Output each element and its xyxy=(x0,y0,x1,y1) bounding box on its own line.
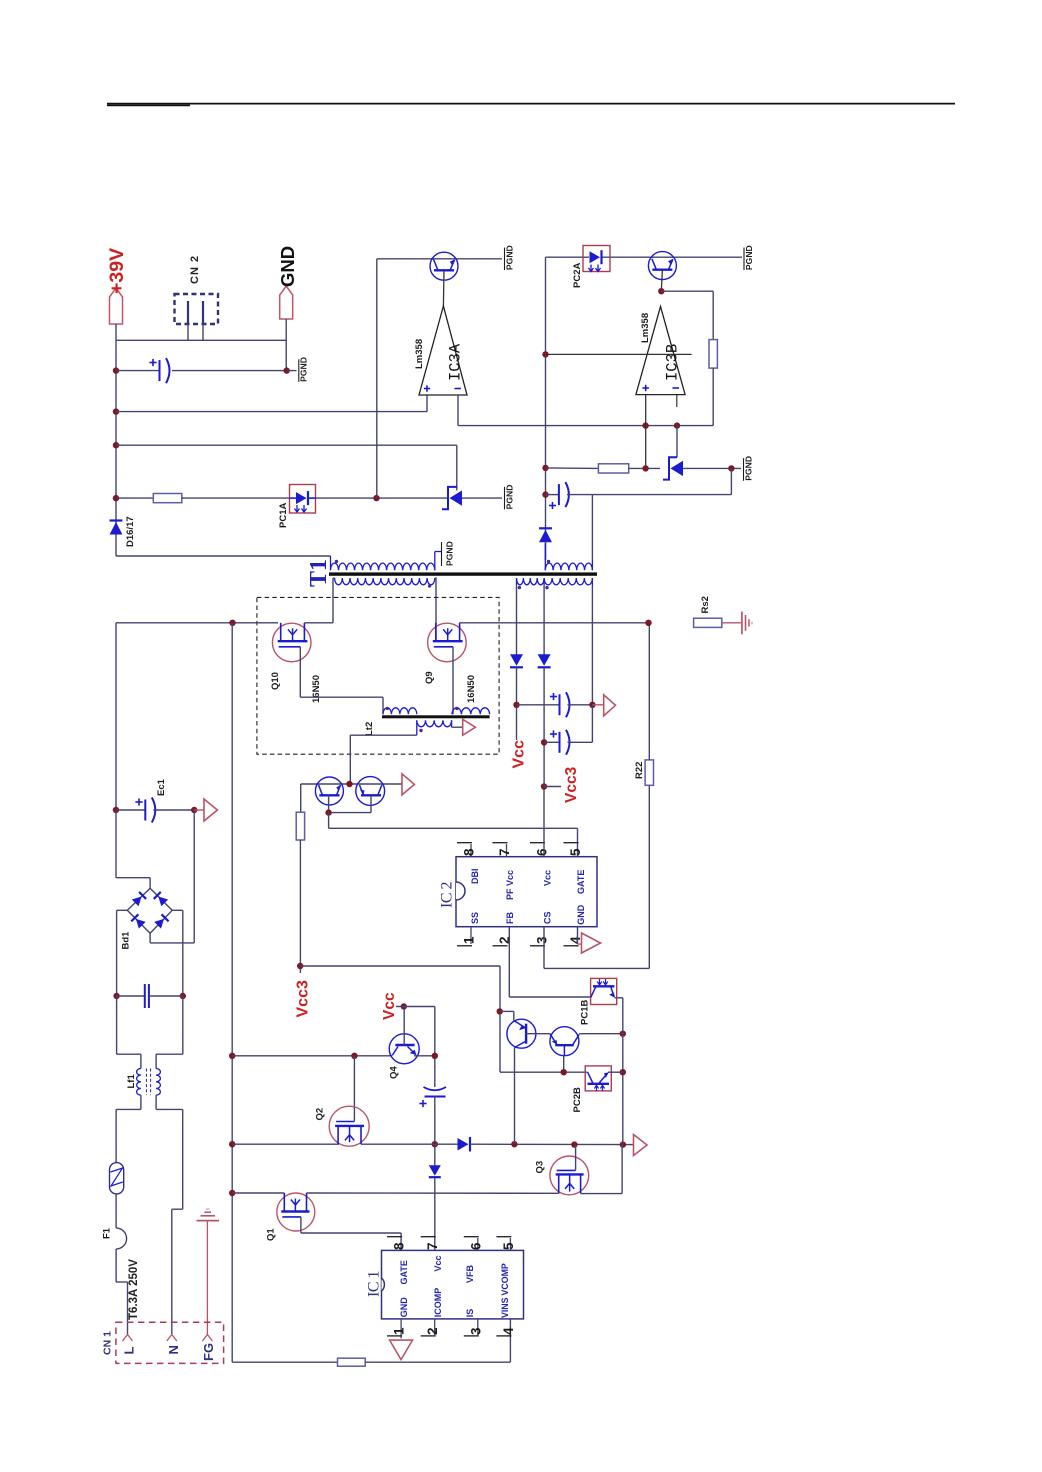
wire F1 lead xyxy=(115,1194,117,1228)
IC1 pin5 VCOMP xyxy=(509,1238,511,1250)
wire to arrow2 xyxy=(194,809,204,811)
connector CN 2 xyxy=(175,294,219,324)
svg-text:PGND: PGND xyxy=(743,456,753,481)
svg-text:GATE: GATE xyxy=(399,1260,409,1284)
ground PGND label3 xyxy=(504,248,506,271)
resistor Rdrv xyxy=(296,812,304,840)
svg-text:VINS: VINS xyxy=(500,1297,510,1318)
T1 primary winding xyxy=(330,556,332,570)
node j-731 xyxy=(728,465,734,471)
node +39V junction3 xyxy=(113,442,119,448)
IC2 pin4 GND xyxy=(564,945,579,947)
T1 aux winding xyxy=(335,578,435,585)
resistor R22 xyxy=(645,760,653,785)
wire latch emitter bus xyxy=(500,1071,564,1073)
IC1 pin3 IS xyxy=(477,1319,479,1335)
wire sec rail2 xyxy=(543,585,545,656)
svg-text:PC1A: PC1A xyxy=(278,503,289,528)
node Vcc3 j xyxy=(541,783,547,789)
transformer T1 core xyxy=(329,572,597,575)
wire IC3B input cross xyxy=(546,353,692,355)
svg-text:Q9: Q9 xyxy=(424,671,435,684)
svg-text:PGND: PGND xyxy=(299,357,309,382)
svg-text:T1: T1 xyxy=(306,559,332,587)
transistor drv-npn xyxy=(315,777,343,805)
wire sec rail3 xyxy=(591,585,593,705)
transistor Q3 xyxy=(550,1156,589,1195)
wire FB pin2 down xyxy=(508,927,510,997)
wire H1 mid xyxy=(361,1143,458,1145)
IC1 pin2 ICOMP xyxy=(434,1319,436,1335)
IC1 pin7 Vcc xyxy=(421,1236,436,1238)
CN1 pin FG xyxy=(202,1335,212,1342)
node H1 j1 xyxy=(432,1141,438,1147)
node r232 j2 xyxy=(229,1141,235,1147)
wire VINS run xyxy=(232,1361,337,1363)
wire rail545 top xyxy=(545,257,547,560)
node T1 dot5 xyxy=(545,586,548,589)
transistor Q4 xyxy=(389,1034,419,1064)
wire Lf1 L down xyxy=(140,1095,142,1109)
svg-text:Vcc: Vcc xyxy=(381,992,398,1020)
svg-text:PGND: PGND xyxy=(504,485,514,510)
wire PC1B right xyxy=(615,997,623,999)
svg-text:GND: GND xyxy=(277,246,298,287)
wire R22 top xyxy=(648,623,650,760)
wire Q10 src to T1 xyxy=(304,622,333,624)
node H1 j3 xyxy=(571,1141,577,1147)
wire to CN1 L xyxy=(115,1249,117,1282)
ground arrow IC2 xyxy=(582,933,601,953)
wire rail376 xyxy=(376,259,378,498)
CN1 pin L xyxy=(123,1335,133,1342)
wire Q2 gate drop xyxy=(353,1056,355,1122)
node j-645-468 xyxy=(642,465,648,471)
wire Ec1 right down xyxy=(193,810,195,943)
inductor Lt2 core xyxy=(382,715,490,718)
optocoupler PC1B xyxy=(591,978,617,1004)
transistor IC3B-out xyxy=(648,252,676,280)
wire IC3B minus stub xyxy=(676,395,678,407)
wire VINS run2 xyxy=(365,1361,510,1363)
wire Rs2 to earth xyxy=(722,622,741,624)
wire Q9 src out xyxy=(460,622,649,624)
wire L2 bot right xyxy=(451,720,453,727)
optocoupler PC2A xyxy=(583,246,610,272)
diode Dsec2 xyxy=(538,666,551,668)
wire zener1 to PGND xyxy=(462,497,502,499)
ground PGND label2 xyxy=(504,487,506,510)
wire Rdrv down xyxy=(299,840,301,973)
svg-text:Lm358: Lm358 xyxy=(640,313,651,343)
svg-text:Vcc: Vcc xyxy=(433,1255,443,1271)
node xcap j1 xyxy=(113,993,119,999)
svg-text:PGND: PGND xyxy=(744,245,754,270)
svg-text:VCOMP: VCOMP xyxy=(500,1263,510,1295)
wire drv bases xyxy=(329,812,371,814)
wire H2 left xyxy=(232,1192,284,1194)
svg-text:Q1: Q1 xyxy=(266,1228,277,1241)
svg-text:6: 6 xyxy=(535,848,550,856)
IC2 pin8 DBI xyxy=(470,844,472,857)
transistor latch-pnp xyxy=(507,1019,536,1048)
diode D16/17 xyxy=(110,519,123,521)
wire rail232 xyxy=(231,623,233,1362)
wire sec rail2b xyxy=(543,667,545,786)
wire zener2 right xyxy=(683,467,741,469)
svg-text:ICOMP: ICOMP xyxy=(433,1288,443,1318)
svg-text:IC3A: IC3A xyxy=(447,343,465,381)
svg-text:GATE: GATE xyxy=(576,870,586,894)
wire CN2 pin1 xyxy=(187,324,189,340)
svg-text:3: 3 xyxy=(535,936,550,944)
svg-text:IC 1: IC 1 xyxy=(366,1271,383,1298)
node R22 j xyxy=(645,620,651,626)
T1 sec winding bottom xyxy=(517,578,545,585)
diode Dser xyxy=(469,1137,471,1152)
inductor Lf1 xyxy=(137,1069,141,1096)
svg-text:CN 1: CN 1 xyxy=(102,1331,114,1355)
wire to arrow1 xyxy=(592,704,603,706)
node rail545 j3 xyxy=(542,491,548,497)
Lt2 bottom winding xyxy=(417,720,452,727)
ground PGND label4 xyxy=(743,248,745,271)
op-amp IC3A xyxy=(419,306,467,395)
wire sec rail1b xyxy=(516,667,518,740)
svg-text:3: 3 xyxy=(468,1327,483,1335)
transistor drv-pnp xyxy=(356,777,385,806)
transistor IC3A-out xyxy=(430,252,458,280)
svg-text:Bd1: Bd1 xyxy=(121,931,132,950)
wire PC1A to zener1 xyxy=(316,497,448,499)
svg-text:F1: F1 xyxy=(102,1227,113,1239)
svg-text:Ec1: Ec1 xyxy=(156,778,167,796)
svg-text:FB: FB xyxy=(505,912,515,924)
wire IC2 gnd lead xyxy=(577,927,579,944)
transistor Q1 xyxy=(277,1193,315,1231)
node T1 dot3 xyxy=(547,560,550,563)
svg-text:Vcc3: Vcc3 xyxy=(563,766,580,803)
capacitor Cvcc1 xyxy=(517,704,560,706)
wire pnp collector xyxy=(514,1048,516,1145)
node H1 j2 xyxy=(511,1141,517,1147)
node +39V junction2 xyxy=(113,408,119,414)
wire R to PC1A xyxy=(182,497,290,499)
svg-text:Q10: Q10 xyxy=(270,672,281,690)
svg-text:16N50: 16N50 xyxy=(466,675,477,703)
IC1 pin4 VINS xyxy=(496,1335,511,1337)
ground arrow H1 xyxy=(634,1135,648,1156)
svg-text:Rs2: Rs2 xyxy=(700,596,711,613)
wire H2 right xyxy=(307,1192,559,1194)
node PGND junction xyxy=(284,367,290,373)
capacitor Ec1 xyxy=(116,809,145,811)
ground PGND label1 xyxy=(287,370,297,372)
wire IC3A- to bus xyxy=(457,395,459,426)
svg-text:PF Vcc: PF Vcc xyxy=(505,870,515,900)
diode Dvcc dn xyxy=(434,1144,436,1166)
node r232 j3 xyxy=(229,1190,235,1196)
svg-text:7: 7 xyxy=(497,848,512,856)
diode D-aux xyxy=(539,527,552,529)
wire Q10 gate to L2 xyxy=(300,696,383,698)
op-amp IC3B xyxy=(636,306,685,394)
svg-text:CN 2: CN 2 xyxy=(189,255,201,284)
node Vcc j1 xyxy=(513,702,519,708)
svg-text:+39V: +39V xyxy=(106,248,128,294)
node rail545 j-in xyxy=(542,351,548,357)
svg-text:8: 8 xyxy=(392,1242,407,1250)
transistor latch-npn xyxy=(550,1027,579,1056)
svg-text:Vcc: Vcc xyxy=(543,870,553,886)
ground arrow drv xyxy=(402,774,414,795)
IC2 pin5 GATE xyxy=(564,842,579,844)
wire R2 to zener2 xyxy=(629,467,660,469)
capacitor aux C1 xyxy=(546,494,559,496)
ground arrow IC1 xyxy=(390,1340,413,1360)
wire xcap to Lf1 R xyxy=(182,996,184,1054)
ground PGND label T1 xyxy=(441,542,443,566)
wire xcap to Lf1 L xyxy=(116,996,118,1054)
optocoupler PC1A xyxy=(290,485,316,514)
fuse F1 arc xyxy=(116,1228,127,1249)
node rail376 junction xyxy=(373,495,379,501)
connector CN1 box xyxy=(116,1322,224,1363)
wire to zener1 xyxy=(116,444,457,446)
node T1 dot1 xyxy=(335,560,338,563)
wire Bd1 bottom xyxy=(149,933,151,943)
svg-text:PC2B: PC2B xyxy=(572,1087,583,1112)
svg-text:IS: IS xyxy=(465,1309,475,1318)
capacitor Cvcc q4 xyxy=(424,1087,447,1090)
svg-text:PGND: PGND xyxy=(504,245,514,270)
wire diode-winding xyxy=(545,542,547,561)
node L2 dot1 xyxy=(386,707,389,710)
wire Q4 emitter xyxy=(414,1055,435,1057)
IC2 pin1 SS xyxy=(470,927,472,944)
wire Vcc to IC1 xyxy=(434,1178,436,1250)
IC IC2 body xyxy=(456,857,597,927)
node T1 dot2 xyxy=(428,584,431,587)
svg-text:7: 7 xyxy=(425,1242,440,1250)
IC2 pin6 Vcc xyxy=(530,842,545,844)
IC IC1 body xyxy=(382,1250,524,1319)
Lt2 top windings xyxy=(383,708,417,715)
IC1 pin8 GATE xyxy=(387,1236,402,1238)
ground earth sec xyxy=(741,612,743,635)
boundary dashed box xyxy=(257,597,499,754)
wire aux right to Q9 xyxy=(435,577,437,641)
node Ec1 j1 xyxy=(113,807,119,813)
power flag +39V xyxy=(110,288,123,324)
node +39V junction1 xyxy=(113,367,119,373)
wire cap2 up xyxy=(591,705,593,743)
svg-text:D16/17: D16/17 xyxy=(125,516,136,547)
wire +39V to CN2 to GND xyxy=(116,339,286,341)
wire op1 collector line xyxy=(377,258,502,260)
wire bulk to Q10 xyxy=(116,622,278,624)
capacitor X-cap xyxy=(117,995,145,997)
node minus-bus j2 xyxy=(674,422,680,428)
IC1 pin6 VFB xyxy=(477,1238,479,1250)
svg-text:2: 2 xyxy=(425,1327,440,1335)
wire 731 loop xyxy=(730,468,732,494)
node L2 dot2 xyxy=(455,707,458,710)
wire Vcc label lead xyxy=(396,1006,404,1008)
wire H1 right xyxy=(470,1143,633,1145)
CN1 pin N xyxy=(167,1335,177,1342)
svg-text:1: 1 xyxy=(462,936,477,944)
transistor Q2 xyxy=(329,1106,369,1146)
wire pnp emitter xyxy=(500,1010,514,1012)
resistor R(467) xyxy=(598,464,628,473)
wire Bd1 left xyxy=(117,909,128,911)
svg-text:5: 5 xyxy=(501,1242,516,1250)
capacitor output C xyxy=(116,370,160,372)
node r232 j1 xyxy=(229,1053,235,1059)
node rail545 j2 xyxy=(542,465,548,471)
resistor Rs2 xyxy=(694,618,722,627)
node IC3B out xyxy=(658,288,664,294)
wire drv collector xyxy=(300,784,302,812)
wire Q3 loop xyxy=(581,1193,623,1195)
header rule xyxy=(107,103,955,105)
IC2 pin7 PFVcc xyxy=(506,844,508,857)
zener ZD1 xyxy=(442,487,457,509)
wire sec rail1 xyxy=(516,585,518,656)
node cap1 j xyxy=(589,702,595,708)
wire IC3B feedback xyxy=(661,290,713,292)
svg-text:Vcc3: Vcc3 xyxy=(295,980,312,1017)
svg-text:GND: GND xyxy=(576,904,586,925)
resistor Rfb xyxy=(709,340,717,369)
svg-text:16N50: 16N50 xyxy=(311,675,322,703)
zener ZD2 xyxy=(663,457,677,479)
diode Dsec1 xyxy=(510,666,523,668)
node Vcc rail j xyxy=(432,1053,438,1059)
node rail232 top xyxy=(229,620,235,626)
wire Lf1 R down xyxy=(155,1095,157,1109)
svg-text:GND: GND xyxy=(399,1297,409,1318)
wire 677 to zener2 xyxy=(676,426,678,458)
wire npn collector xyxy=(579,1033,623,1035)
node Vcc q4 j xyxy=(401,1003,407,1009)
wire +39V rail upper xyxy=(115,324,117,556)
svg-text:R22: R22 xyxy=(634,762,645,779)
wire Vcc3 rail xyxy=(543,787,545,857)
resistor Rvins xyxy=(338,1358,366,1366)
svg-text:5: 5 xyxy=(568,848,583,856)
svg-text:PC2A: PC2A xyxy=(572,263,583,288)
wire CS pin3 down xyxy=(543,927,545,969)
svg-text:FG: FG xyxy=(201,1343,216,1361)
svg-text:8: 8 xyxy=(462,848,477,856)
ground arrow L2 xyxy=(463,719,476,735)
node H1 j4 xyxy=(620,1141,626,1147)
node pnp j xyxy=(497,1008,503,1014)
wire CS up R22 xyxy=(648,785,650,968)
wire Rfb down xyxy=(712,368,714,426)
wire rail to R xyxy=(116,497,153,499)
node drv base j xyxy=(325,809,331,815)
wire gate bus xyxy=(328,813,330,829)
IC2 pin2 FB xyxy=(493,945,508,947)
node Vcc3 j2 xyxy=(541,739,547,745)
resistor R(39V) xyxy=(153,494,182,503)
transistor Q9 xyxy=(428,623,467,662)
node latch j2 xyxy=(561,1069,567,1075)
svg-text:Lm358: Lm358 xyxy=(414,339,425,369)
svg-text:Lt2: Lt2 xyxy=(364,722,375,736)
svg-text:CS: CS xyxy=(543,911,553,924)
ground arrow Ec1 xyxy=(204,799,217,821)
svg-text:PC1B: PC1B xyxy=(580,1000,591,1025)
node L2 dot3 xyxy=(419,729,422,732)
svg-text:IC3B: IC3B xyxy=(664,344,682,381)
T1 sec winding top xyxy=(545,563,592,570)
wire CN2 pin2 xyxy=(202,324,204,340)
node minus-bus j1 xyxy=(642,422,648,428)
transistor Q10 xyxy=(272,623,311,662)
wire L2 bot left xyxy=(416,720,418,735)
wire GND lead xyxy=(285,319,287,371)
svg-text:Vcc: Vcc xyxy=(511,740,528,769)
wire IC3B plus pin xyxy=(645,395,647,469)
wire Ec1 left down xyxy=(115,810,117,878)
node T1 dot4 xyxy=(518,586,521,589)
IC1 pin1 GND xyxy=(400,1319,402,1339)
node +39V junction4 xyxy=(113,495,119,501)
svg-text:PGND: PGND xyxy=(445,541,455,566)
wire to R2 xyxy=(546,467,599,470)
capacitor Cvcc2 xyxy=(544,741,559,743)
wire H1 left xyxy=(232,1143,339,1145)
wire drv top xyxy=(301,783,402,785)
svg-text:6: 6 xyxy=(468,1242,483,1250)
wire Vcc top run xyxy=(404,1006,435,1008)
svg-text:L: L xyxy=(122,1347,137,1355)
ground PGND label5 xyxy=(743,458,745,481)
wire cap to winding xyxy=(591,495,593,560)
fuse holder F1 xyxy=(110,1163,124,1194)
node latch j1 xyxy=(620,1031,626,1037)
wire Q1 gate xyxy=(301,1232,401,1234)
svg-text:VFB: VFB xyxy=(465,1264,475,1283)
svg-text:Q3: Q3 xyxy=(535,1161,546,1174)
node latch j3 xyxy=(620,1069,626,1075)
node Ec1 j2 xyxy=(191,807,197,813)
power flag GND xyxy=(280,286,293,319)
node vcc3 node xyxy=(297,963,303,969)
wire Bd1 right xyxy=(172,909,183,911)
svg-text:Q2: Q2 xyxy=(315,1108,326,1121)
svg-text:4: 4 xyxy=(501,1327,516,1335)
svg-text:T6.3A 250V: T6.3A 250V xyxy=(128,1259,140,1320)
wire T1 primary feed xyxy=(116,555,331,557)
svg-text:IC 2: IC 2 xyxy=(439,882,456,909)
svg-text:1: 1 xyxy=(392,1327,407,1335)
bridge Bd1 xyxy=(127,888,172,933)
svg-text:N: N xyxy=(166,1345,181,1354)
node drv junction xyxy=(346,781,352,787)
node xcap j2 xyxy=(180,993,186,999)
optocoupler PC2B xyxy=(585,1066,611,1091)
wire PC2A row xyxy=(546,256,590,258)
wire IC3A+ sense xyxy=(116,411,427,413)
wire base bus xyxy=(232,1055,392,1057)
wire vcc3 run xyxy=(300,965,500,967)
label Vcc3 right xyxy=(544,786,561,788)
